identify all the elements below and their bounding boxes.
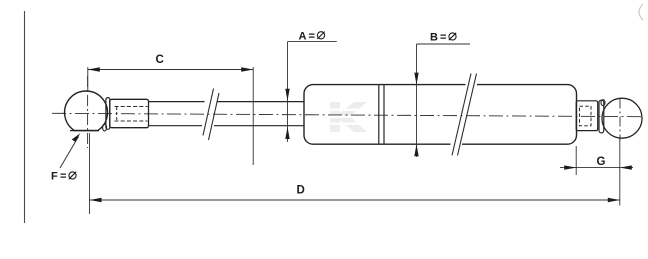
cylinder edge gaps at break bbox=[466, 83, 478, 86]
right ball stud bbox=[602, 98, 642, 138]
svg-text:=: = bbox=[309, 30, 315, 42]
svg-text:=: = bbox=[60, 171, 66, 183]
svg-text:C: C bbox=[156, 54, 164, 66]
dimension A down arrow (to rod top) bbox=[285, 89, 289, 101]
dimension C extension line right bbox=[252, 67, 254, 165]
dimension C right arrow bbox=[241, 67, 253, 71]
dimension A up arrow (to rod bottom) bbox=[285, 127, 289, 139]
cylinder break mark slash 1 bbox=[452, 74, 471, 156]
dimension G extension line right bbox=[619, 139, 621, 185]
piston rod bottom edge bbox=[149, 125, 203, 127]
left frame border line bbox=[24, 11, 26, 223]
dimension C extension line left bbox=[87, 67, 89, 91]
dimension F arrowhead bbox=[72, 133, 81, 142]
dimension D left arrow bbox=[90, 198, 102, 202]
left socket lip (flange) bbox=[106, 98, 110, 130]
dimension C left arrow bbox=[88, 67, 100, 71]
svg-text:F: F bbox=[51, 171, 58, 183]
dimension A leader: horizontal line bbox=[288, 41, 337, 43]
left lip hook detail bbox=[103, 124, 107, 131]
dimension B vertical line bbox=[416, 44, 418, 157]
left ball vertical centerline (dash-dot) bbox=[87, 76, 89, 148]
dimension G left arrow (outside, pointing right) bbox=[564, 165, 576, 169]
svg-text:B: B bbox=[430, 32, 438, 44]
dimension B up arrow (to cylinder bottom) bbox=[414, 144, 418, 156]
dimension G extension line left bbox=[575, 146, 577, 175]
right flange lip hook bbox=[601, 100, 605, 106]
hidden thread line bottom (dashed) bbox=[115, 120, 148, 122]
dimension B down arrow (to cylinder top) bbox=[414, 73, 418, 85]
dimension G right arrow (outside, pointing left) bbox=[620, 165, 632, 169]
cylinder seam line 2 bbox=[383, 85, 385, 144]
dimension D right arrow bbox=[608, 198, 620, 202]
piston rod top edge bbox=[149, 101, 205, 103]
hidden thread line top (dashed) bbox=[115, 106, 148, 108]
rod break mark slash 2 bbox=[209, 93, 220, 140]
main horizontal centerline (dash-dot) bbox=[52, 113, 643, 116]
dimension D line bbox=[90, 199, 620, 201]
left ball stud (ball with flat bottom) bbox=[65, 91, 108, 131]
svg-text:D: D bbox=[297, 185, 305, 197]
watermark K (faint logo on cylinder) bbox=[326, 102, 370, 132]
dimension D extension line right bbox=[619, 185, 621, 206]
thread start mark bbox=[116, 107, 118, 121]
dimension D extension line left bbox=[89, 133, 91, 214]
dimension G line bbox=[560, 167, 633, 169]
right hidden thread rectangle (dashed) bbox=[580, 106, 592, 126]
cylinder body bbox=[304, 85, 577, 145]
dimension A vertical line bbox=[287, 42, 289, 142]
svg-text:G: G bbox=[597, 156, 606, 168]
svg-text:A: A bbox=[299, 30, 307, 42]
dimension B leader: horizontal line bbox=[417, 43, 471, 45]
faint cropped arc top-right (artifact) bbox=[639, 4, 643, 20]
cylinder break mark slash 2 bbox=[458, 74, 477, 156]
left threaded connector block bbox=[110, 99, 149, 127]
left ball flat bottom extension bbox=[70, 130, 99, 132]
rod break mark slash 1 bbox=[203, 89, 214, 136]
right threaded connector block bbox=[576, 101, 598, 131]
cylinder seam line 1 bbox=[378, 85, 380, 144]
dimension F leader line bbox=[60, 137, 79, 169]
svg-text:=: = bbox=[440, 32, 446, 44]
right flange bar bbox=[599, 100, 604, 133]
right ball vertical centerline (dash-dot) bbox=[619, 99, 621, 142]
dimension C line bbox=[88, 69, 253, 71]
